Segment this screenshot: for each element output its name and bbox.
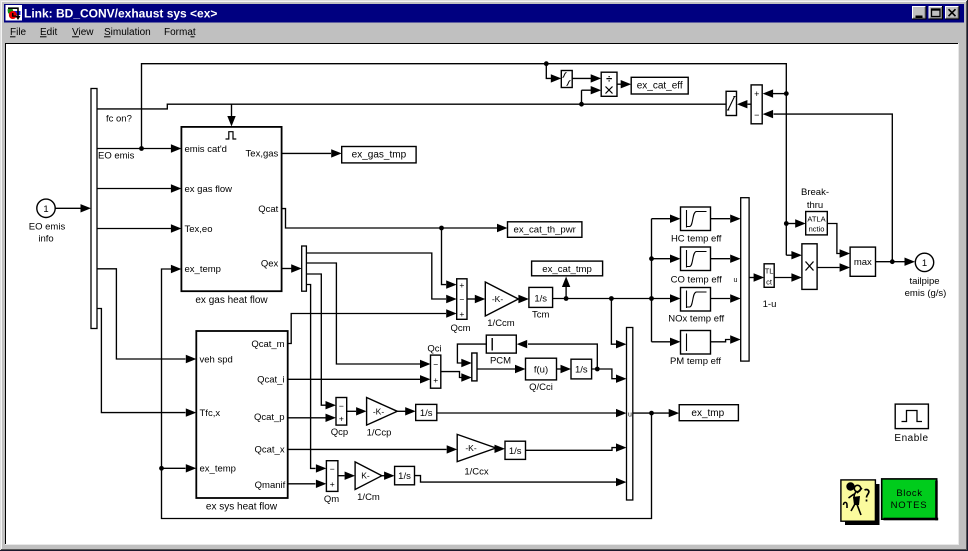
svg-text:Q/Cci: Q/Cci	[529, 382, 553, 393]
svg-text:Link: BD_CONV/exhaust sys <ex>: Link: BD_CONV/exhaust sys <ex>	[24, 7, 217, 21]
svg-text:ex_tmp: ex_tmp	[691, 408, 724, 419]
svg-text:Qmanif: Qmanif	[255, 480, 286, 491]
svg-text:1/s: 1/s	[420, 408, 433, 419]
svg-text:ex sys heat flow: ex sys heat flow	[206, 502, 278, 513]
svg-text:÷: ÷	[606, 74, 612, 86]
svg-text:1: 1	[43, 204, 48, 215]
svg-text:Qcat_i: Qcat_i	[257, 375, 284, 386]
svg-text:HC temp eff: HC temp eff	[671, 233, 722, 244]
svg-text:−: −	[459, 295, 464, 305]
svg-text:ex_cat_th_pwr: ex_cat_th_pwr	[513, 225, 576, 236]
svg-text:1/Ccm: 1/Ccm	[487, 318, 515, 329]
svg-text:thru: thru	[807, 200, 823, 211]
svg-text:u: u	[628, 412, 632, 419]
svg-text:tailpipe: tailpipe	[909, 276, 939, 287]
svg-text:Qcat_m: Qcat_m	[251, 339, 284, 350]
svg-text:EO emis: EO emis	[29, 222, 66, 233]
svg-text:+: +	[433, 375, 438, 385]
svg-text:Qcp: Qcp	[331, 427, 348, 438]
svg-text:Tex,gas: Tex,gas	[246, 149, 279, 160]
svg-text:−: −	[433, 360, 438, 370]
svg-text:1-u: 1-u	[763, 299, 777, 310]
svg-text:ex gas flow: ex gas flow	[185, 184, 233, 195]
svg-text:+: +	[339, 413, 344, 423]
svg-text:Qex: Qex	[261, 258, 279, 269]
svg-text:ex_cat_eff: ex_cat_eff	[637, 81, 683, 92]
svg-text:ex_temp: ex_temp	[185, 264, 221, 275]
svg-text:Block: Block	[896, 488, 922, 499]
svg-text:1/s: 1/s	[534, 294, 547, 305]
svg-text:1/Ccx: 1/Ccx	[464, 467, 489, 478]
svg-text:1/s: 1/s	[575, 365, 588, 376]
svg-text:-K-: -K-	[465, 443, 477, 453]
svg-text:+: +	[459, 280, 464, 290]
svg-text:PCM: PCM	[490, 355, 511, 366]
svg-text:K-: K-	[361, 471, 370, 481]
svg-text:1/s: 1/s	[509, 446, 522, 457]
svg-text:+: +	[754, 89, 759, 99]
svg-text:NOTES: NOTES	[891, 500, 928, 511]
svg-text:PM temp eff: PM temp eff	[670, 356, 721, 367]
svg-text:CO temp eff: CO temp eff	[671, 274, 722, 285]
svg-text:Qcat_p: Qcat_p	[254, 412, 285, 423]
svg-text:Qcat: Qcat	[258, 204, 278, 215]
svg-text:Qm: Qm	[324, 494, 339, 505]
svg-text:TL: TL	[765, 267, 774, 276]
svg-text:Qcat_x: Qcat_x	[254, 445, 284, 456]
svg-text:u: u	[734, 277, 738, 284]
svg-text:1/Cm: 1/Cm	[357, 492, 380, 503]
svg-text:fc on?: fc on?	[106, 114, 132, 125]
svg-text:1/Ccp: 1/Ccp	[367, 428, 392, 439]
svg-text:Tfc,x: Tfc,x	[200, 408, 221, 419]
svg-text:ex gas heat flow: ex gas heat flow	[195, 295, 268, 306]
svg-text:-K-: -K-	[373, 406, 385, 416]
svg-text:ex_cat_tmp: ex_cat_tmp	[542, 264, 592, 275]
svg-text:f(u): f(u)	[534, 365, 548, 376]
svg-text:Tcm: Tcm	[532, 310, 550, 321]
svg-text:emis cat'd: emis cat'd	[185, 144, 227, 155]
svg-text:nctio: nctio	[809, 225, 825, 234]
svg-text:−: −	[754, 110, 759, 120]
svg-text:ex_gas_tmp: ex_gas_tmp	[352, 150, 407, 161]
svg-text:EO emis: EO emis	[98, 151, 135, 162]
svg-text:ATLA: ATLA	[807, 215, 825, 224]
svg-text:max: max	[854, 257, 872, 268]
svg-text:emis (g/s): emis (g/s)	[905, 288, 947, 299]
svg-text:Qci: Qci	[427, 344, 441, 355]
svg-text:1/s: 1/s	[398, 471, 411, 482]
svg-text:Tex,eo: Tex,eo	[185, 224, 213, 235]
svg-text:info: info	[38, 234, 53, 245]
svg-text:NOx temp eff: NOx temp eff	[668, 313, 724, 324]
svg-text:Simulation: Simulation	[104, 27, 151, 38]
svg-text:−: −	[339, 401, 344, 411]
svg-text:ct: ct	[766, 278, 773, 287]
svg-text:veh spd: veh spd	[200, 354, 233, 365]
svg-text:−: −	[330, 464, 335, 474]
svg-text:Enable: Enable	[894, 433, 928, 444]
svg-text:1: 1	[922, 258, 927, 269]
svg-text:+: +	[459, 309, 464, 319]
svg-text:Break-: Break-	[801, 187, 829, 198]
svg-text:-K-: -K-	[492, 294, 504, 304]
svg-text:+: +	[330, 479, 335, 489]
svg-text:ex_temp: ex_temp	[200, 464, 236, 475]
svg-text:Qcm: Qcm	[450, 323, 470, 334]
